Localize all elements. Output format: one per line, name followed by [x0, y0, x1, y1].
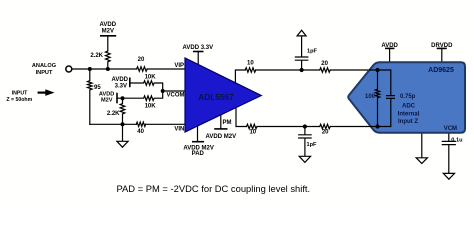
svg-text:AVDD 3.3V: AVDD 3.3V — [183, 45, 214, 51]
svg-text:10: 10 — [247, 61, 254, 67]
svg-text:Internal: Internal — [398, 111, 420, 117]
op-amp output bottom wire — [236, 108, 367, 127]
svg-text:AVDD: AVDD — [111, 77, 128, 83]
node J6 — [300, 68, 304, 72]
node J2 — [106, 67, 110, 71]
supply tick AVDD M2V top — [101, 35, 116, 37]
node J1 — [88, 67, 92, 71]
svg-text:10K: 10K — [145, 74, 157, 80]
ground G3 stem below ADC — [421, 134, 423, 158]
resistor 20 top — [320, 68, 331, 73]
resistor 10 top — [245, 68, 255, 73]
svg-text:ADC: ADC — [402, 104, 416, 110]
svg-text:10K: 10K — [145, 104, 157, 110]
input arrow — [38, 89, 55, 96]
svg-text:AVDD: AVDD — [381, 43, 398, 49]
supply tick AVDD 3.3V left — [129, 78, 131, 86]
node J8 — [375, 68, 379, 72]
op-amp U1 ADL5567 — [185, 58, 261, 132]
svg-text:20: 20 — [138, 57, 145, 63]
resistor 10 bottom — [247, 124, 258, 129]
svg-text:ANALOG: ANALOG — [32, 63, 56, 69]
op-amp supply AVDD 3.3V tick — [194, 51, 203, 53]
ground G2 below bottom 1pF — [299, 156, 310, 162]
supply AVDD stem — [389, 48, 391, 63]
svg-text:100: 100 — [365, 94, 376, 100]
ground G1 triangle — [117, 141, 128, 147]
svg-text:20: 20 — [322, 130, 329, 136]
svg-text:VCOM: VCOM — [167, 93, 185, 99]
ground G1 stem — [122, 124, 124, 141]
wire ADC entry bottom — [367, 126, 378, 128]
svg-text:PAD: PAD — [192, 151, 205, 157]
supply tick AVDD M2V left — [116, 94, 118, 103]
svg-text:AVDD M2V: AVDD M2V — [206, 134, 237, 140]
svg-text:0.1u: 0.1u — [451, 138, 463, 144]
junction dots — [88, 67, 380, 129]
node J7 — [303, 124, 307, 128]
wire ADC entry top — [370, 69, 378, 71]
svg-text:1pF: 1pF — [307, 49, 318, 55]
capacitor 0.75p internal — [378, 70, 395, 127]
svg-text:20: 20 — [321, 61, 328, 67]
svg-text:PAD = PM = -2VDC for DC coupli: PAD = PM = -2VDC for DC coupling level s… — [117, 183, 311, 194]
svg-text:Z = 50ohm: Z = 50ohm — [6, 97, 32, 103]
wire VIN rail — [90, 123, 185, 125]
resistor 100 internal — [375, 70, 379, 127]
resistor 95 vertical — [88, 69, 93, 124]
svg-text:PM: PM — [223, 120, 232, 126]
node J4 VCOM — [161, 89, 165, 93]
resistor 20 horizontal left — [137, 67, 147, 72]
svg-text:VIP: VIP — [174, 63, 184, 69]
ADC U2 AD9625 block — [348, 62, 465, 132]
resistor 40 horizontal — [136, 122, 145, 126]
svg-text:INPUT: INPUT — [12, 91, 28, 97]
svg-text:0.75p: 0.75p — [400, 94, 416, 100]
svg-text:ADL5567: ADL5567 — [198, 92, 234, 102]
svg-text:Input Z: Input Z — [398, 119, 418, 125]
svg-text:2.2K: 2.2K — [107, 111, 120, 117]
VCM wire — [442, 133, 455, 173]
svg-text:M2V: M2V — [102, 29, 114, 35]
op-amp output top wire — [235, 70, 369, 83]
svg-text:1pF: 1pF — [307, 142, 318, 148]
capacitor 1pF bottom — [299, 127, 311, 157]
resistor 2.2K top vertical — [106, 36, 111, 69]
resistor 2.2K lower vertical — [120, 98, 125, 124]
op-amp supply stem — [197, 52, 199, 66]
svg-text:AVDD: AVDD — [100, 22, 117, 28]
supply DRVDD stem — [441, 48, 443, 63]
svg-text:M2V: M2V — [101, 97, 113, 103]
wire input to VIP — [72, 68, 185, 70]
svg-text:2.2K: 2.2K — [90, 53, 103, 59]
svg-text:DRVDD: DRVDD — [431, 43, 453, 49]
PAD tick — [193, 141, 204, 143]
svg-text:VCM: VCM — [444, 126, 457, 132]
svg-text:40: 40 — [137, 129, 144, 135]
resistor 10K upper — [130, 81, 163, 91]
svg-text:VIN: VIN — [174, 127, 184, 133]
svg-text:AD9625: AD9625 — [428, 67, 454, 74]
svg-text:95: 95 — [94, 85, 101, 91]
svg-text:10: 10 — [249, 130, 256, 136]
ground G3 triangle — [416, 158, 427, 164]
node J3 — [121, 96, 125, 100]
node ANALOG INPUT terminal — [66, 66, 72, 72]
resistor 10K lower — [117, 91, 163, 100]
capacitor 1pF top — [295, 36, 307, 70]
node J9 — [375, 124, 379, 128]
ground G4 triangle — [443, 173, 454, 179]
node J5 — [121, 122, 125, 126]
PM stem — [220, 115, 222, 129]
resistor 20 bottom — [320, 124, 331, 129]
PAD stem — [197, 126, 199, 141]
supply AVDD tick (ADC) — [386, 47, 394, 49]
supply DRVDD tick — [438, 47, 447, 49]
PM tick — [215, 128, 227, 130]
wire VCOM — [163, 90, 185, 92]
svg-text:3.3V: 3.3V — [115, 84, 127, 90]
svg-text:INPUT: INPUT — [36, 70, 53, 76]
up symbol above 1pF — [297, 30, 306, 36]
